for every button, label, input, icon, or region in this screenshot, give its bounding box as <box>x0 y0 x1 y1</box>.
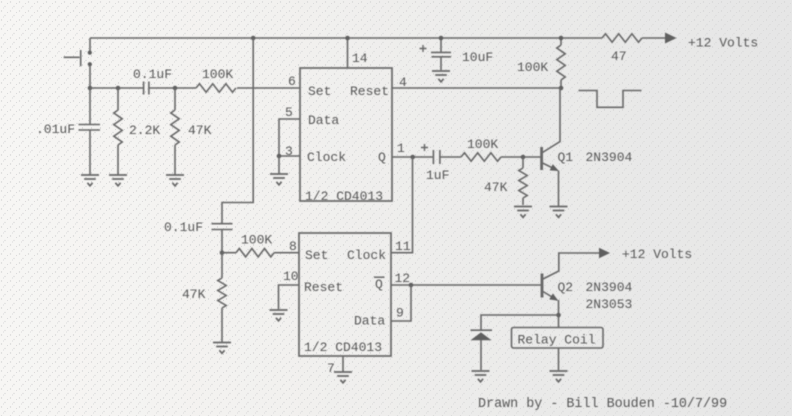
svg-text:8: 8 <box>289 239 297 254</box>
svg-text:Set: Set <box>305 248 328 263</box>
arrow +12 Volts (lower) <box>599 248 610 259</box>
wire relay to ground <box>558 348 560 370</box>
wire pin1 down to pin11 clock <box>391 157 413 253</box>
transistor Q2 bar <box>541 274 544 298</box>
wire pin 9 data stub <box>391 285 411 321</box>
wire left vertical from rail to RC node <box>89 38 91 88</box>
wire diode to ground <box>480 340 482 370</box>
ground (pin 10) <box>270 310 288 321</box>
node dot pin14 rail <box>345 36 350 41</box>
svg-text:47: 47 <box>611 49 627 64</box>
svg-text:11: 11 <box>395 239 411 254</box>
ground (2.2K) <box>109 175 127 186</box>
wire rail down to 0.1uF #2 <box>222 38 253 224</box>
node dot 10uF rail <box>439 36 444 41</box>
resistor 47K (left) <box>171 88 179 175</box>
resistor 47K (Q1 base) <box>519 157 527 205</box>
wire 0.1uF #2 bottom lead <box>221 230 223 253</box>
svg-text:2N3904: 2N3904 <box>586 280 633 295</box>
node dot 100K top rail <box>559 36 564 41</box>
resistor 47K (below 0.1uF) <box>218 253 226 342</box>
wire +12V top rail <box>90 37 602 39</box>
capacitor 0.1uF (series) plates <box>144 82 149 95</box>
resistor 100K (vertical) <box>557 38 565 88</box>
capacitor 1uF plates <box>433 150 440 164</box>
node dot RC corner <box>88 86 93 91</box>
wire pin 4 reset to 100K node <box>392 87 561 89</box>
svg-text:47K: 47K <box>484 180 508 195</box>
node dot set2 junction <box>220 250 225 255</box>
svg-text:2N3904: 2N3904 <box>586 150 633 165</box>
svg-text:Set: Set <box>308 84 331 99</box>
svg-text:Q: Q <box>378 150 386 165</box>
wire Q1 emitter to ground <box>558 171 560 207</box>
svg-text:Data: Data <box>354 314 385 329</box>
svg-text:100K: 100K <box>202 67 233 82</box>
plus sign 1uF <box>421 144 428 151</box>
ground (pin 3) <box>270 174 288 185</box>
node dot 2.2K top <box>116 86 121 91</box>
svg-text:2N3053: 2N3053 <box>586 297 633 312</box>
svg-text:Clock: Clock <box>347 248 386 263</box>
wire pin 10 reset stub <box>279 285 300 309</box>
svg-text:Q: Q <box>375 277 383 292</box>
svg-text:Clock: Clock <box>307 150 346 165</box>
wire 10uF bottom lead <box>440 57 442 70</box>
svg-text:6: 6 <box>288 74 296 89</box>
resistor 2.2K <box>114 88 122 175</box>
pushbutton S1 actuator <box>64 50 81 66</box>
wire pin 14 to rail <box>347 38 349 68</box>
svg-text:.01uF: .01uF <box>36 122 75 137</box>
wire .01uF leads <box>89 88 91 175</box>
svg-text:100K: 100K <box>517 60 548 75</box>
transistor Q2 collector <box>543 253 599 279</box>
wire 1uF to 100K <box>440 156 461 158</box>
ground (47K left) <box>166 175 184 186</box>
ground (pin 7) <box>334 372 352 383</box>
wire node A horizontal y=88 <box>90 87 300 89</box>
svg-text:Q1: Q1 <box>558 150 574 165</box>
resistor 100K (to pin8) <box>222 249 299 257</box>
ground (47K Q1) <box>514 207 532 218</box>
wire junction to diode <box>481 315 559 330</box>
node dot pin3/5 junction <box>277 154 282 159</box>
svg-text:1/2 CD4013: 1/2 CD4013 <box>304 340 382 355</box>
plus sign 10uF <box>420 45 427 52</box>
svg-text:0.1uF: 0.1uF <box>133 67 172 82</box>
diode D1 cathode bar <box>471 329 493 331</box>
node dot rail x=253.7 <box>251 36 256 41</box>
node dot Q1 base 47K <box>521 155 526 160</box>
svg-text:47K: 47K <box>188 123 212 138</box>
wire pin 3 clock stub <box>279 155 300 157</box>
capacitor 10uF plates <box>431 52 451 56</box>
resistor 47 (output) <box>602 34 665 42</box>
svg-text:9: 9 <box>396 306 404 321</box>
svg-text:0.1uF: 0.1uF <box>164 220 203 235</box>
op-amp U2 box 1/2 CD4013 (lower) <box>299 233 391 356</box>
svg-text:2.2K: 2.2K <box>129 123 160 138</box>
wire pin 12 Qbar to Q2 base <box>391 284 542 286</box>
wire pin 7 stub <box>342 356 344 372</box>
ground (relay) <box>550 371 568 382</box>
transistor Q1 collector <box>543 88 561 153</box>
transistor Q2 emitter <box>543 292 557 301</box>
ground (diode) <box>472 371 490 382</box>
wire pin3 ground stub <box>278 156 280 174</box>
svg-text:1uF: 1uF <box>426 168 449 183</box>
svg-text:Drawn by - Bill Bouden -10/7/9: Drawn by - Bill Bouden -10/7/99 <box>478 397 727 412</box>
node dot 100K bottom <box>559 86 564 91</box>
svg-text:1/2 CD4013: 1/2 CD4013 <box>305 189 383 204</box>
svg-text:10: 10 <box>283 269 299 284</box>
ground (Q1 emitter) <box>550 207 568 218</box>
svg-text:+12 Volts: +12 Volts <box>688 36 758 51</box>
svg-text:100K: 100K <box>241 233 272 248</box>
transistor Q1 emitter <box>543 163 558 170</box>
pushbutton contact dots <box>88 51 92 67</box>
capacitor .01uF plates <box>79 125 101 131</box>
wire pin 1 Q output <box>392 156 433 158</box>
svg-text:47K: 47K <box>182 287 206 302</box>
node dot emitter/relay junction <box>556 313 561 318</box>
diode D1 triangle <box>471 332 492 340</box>
relay coil box <box>512 328 604 349</box>
Qbar overbar <box>374 276 385 278</box>
svg-text:14: 14 <box>352 51 368 66</box>
resistor 100K (top left) <box>196 84 236 92</box>
svg-text:4: 4 <box>399 75 407 90</box>
svg-text:+12 Volts: +12 Volts <box>622 247 692 262</box>
svg-text:Reset: Reset <box>304 280 343 295</box>
wire 10uF top lead <box>440 38 442 52</box>
transistor Q1 bar <box>540 147 543 170</box>
svg-text:Q2: Q2 <box>558 280 574 295</box>
node dot pin12 <box>409 283 414 288</box>
capacitor 0.1uF #2 plates <box>212 224 233 230</box>
resistor 100K (to Q1 base) <box>461 153 541 161</box>
svg-text:5: 5 <box>285 105 293 120</box>
svg-text:Data: Data <box>308 113 339 128</box>
wire Q2 emitter down <box>558 300 560 328</box>
op-amp U1 box 1/2 CD4013 (upper) <box>300 68 392 201</box>
wire pin 5 data stub <box>279 119 300 156</box>
node dot pin1 <box>410 155 415 160</box>
pulse waveform symbol <box>579 91 642 108</box>
ground (10uF) <box>432 71 450 82</box>
svg-text:Relay Coil: Relay Coil <box>518 333 596 348</box>
svg-text:1: 1 <box>397 141 405 156</box>
svg-text:3: 3 <box>285 144 293 159</box>
svg-text:12: 12 <box>395 271 411 286</box>
ground (47K mid) <box>213 343 231 354</box>
arrow +12 Volts (top) <box>665 33 677 44</box>
svg-text:100K: 100K <box>467 137 498 152</box>
svg-text:10uF: 10uF <box>462 50 493 65</box>
node dot 47K top <box>173 86 178 91</box>
ground (.01uF) <box>81 175 99 186</box>
svg-text:Reset: Reset <box>350 84 389 99</box>
svg-text:7: 7 <box>327 361 335 376</box>
